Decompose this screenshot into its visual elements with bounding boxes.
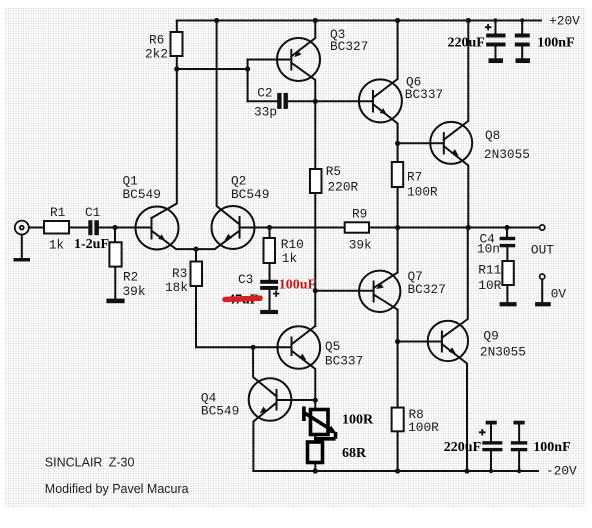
wire Q6 collector to +20V <box>373 21 398 98</box>
capacitor bottom 100nF leads <box>518 425 520 472</box>
capacitor C3 bottom lead <box>269 290 271 310</box>
svg-text:100R: 100R <box>342 412 374 427</box>
junction Q5 base node <box>251 345 256 350</box>
svg-text:18k: 18k <box>165 280 188 295</box>
svg-text:100uF: 100uF <box>279 278 316 293</box>
svg-text:100nF: 100nF <box>533 440 570 455</box>
capacitor bottom 220uF top bar <box>486 421 497 425</box>
svg-text:R5: R5 <box>326 164 341 179</box>
svg-text:220uF: 220uF <box>448 35 485 50</box>
svg-text:R11: R11 <box>478 263 501 278</box>
wire Q2 emitter <box>196 231 240 249</box>
svg-text:100nF: 100nF <box>537 35 574 50</box>
svg-text:BC549: BC549 <box>123 187 161 202</box>
transistor Q3 <box>277 38 320 81</box>
wire Q2 base <box>240 227 270 229</box>
transistor Q4 <box>249 378 292 421</box>
wire to OUT terminal <box>507 227 540 229</box>
junction Q3 collector node <box>313 99 318 104</box>
trimmer wiper return <box>314 432 336 439</box>
wire Q6 base <box>315 100 373 102</box>
trimmer wiper arrowhead <box>327 426 337 434</box>
junction Q4 base node <box>313 398 318 403</box>
junction Q3 base riser <box>245 66 250 71</box>
wire 0V terminal lead <box>541 279 543 302</box>
wire riser Q3 base / C2 left <box>247 60 249 102</box>
capacitor C1 plates <box>88 220 92 235</box>
wire Q4 base <box>277 399 316 401</box>
arrow Q3 emitter <box>294 50 301 57</box>
capacitor bottom 220uF plates <box>482 441 502 444</box>
resistor R11 body <box>502 261 513 285</box>
svg-text:R1: R1 <box>50 205 66 220</box>
wire Q8 base <box>398 142 444 144</box>
ground C3 <box>260 310 278 314</box>
capacitor top 100nF bottom bar <box>516 58 531 63</box>
capacitor top 220uF plates <box>486 34 505 38</box>
resistor R6 leads <box>176 21 178 70</box>
plus C3 <box>273 290 280 297</box>
resistor R3 top lead <box>195 249 197 261</box>
svg-text:39k: 39k <box>349 237 372 252</box>
wire feedback bus left <box>270 227 345 229</box>
transistor Q7 <box>359 271 400 312</box>
wire Q6 emitter <box>373 104 398 143</box>
svg-text:10n: 10n <box>477 241 500 256</box>
svg-text:2k2: 2k2 <box>145 46 168 61</box>
ground input <box>14 258 31 262</box>
resistor R8 leads <box>397 342 399 472</box>
trimmer wiper tick <box>302 407 306 422</box>
wire bus R9 to R7 node <box>369 227 398 229</box>
red strike through 47uF <box>225 298 260 299</box>
trimmer wiper diagonal <box>304 413 331 430</box>
wire +20V top rail <box>177 20 541 22</box>
svg-text:33p: 33p <box>254 105 277 120</box>
capacitor top 100nF plates <box>515 34 530 38</box>
resistor R9 body <box>345 222 369 232</box>
junction input node <box>112 225 117 230</box>
wire Q1 collector to R6 node <box>152 69 177 218</box>
trimmer leads <box>314 400 316 471</box>
wire Q5 base <box>253 346 291 348</box>
OUT terminal <box>540 225 545 230</box>
0V terminal <box>540 274 545 279</box>
junction rail 220uF <box>493 18 497 22</box>
resistor R11 bottom lead <box>506 285 508 302</box>
resistor R7 body <box>392 162 403 187</box>
capacitor bottom 100nF plates <box>511 441 528 444</box>
ground R2 <box>106 299 124 304</box>
resistor R2 body <box>109 242 121 266</box>
wire Q3 emitter to +20V <box>291 21 315 57</box>
svg-text:Q8: Q8 <box>485 128 500 143</box>
capacitor top 220uF leads <box>495 21 497 59</box>
transistor Q8 <box>430 122 472 164</box>
plus top 220uF <box>485 24 492 30</box>
wire input jack ground lead <box>21 235 23 258</box>
svg-text:C2: C2 <box>257 86 272 101</box>
svg-text:1k: 1k <box>49 237 65 252</box>
svg-text:39k: 39k <box>123 284 146 299</box>
junction rail Q9 <box>464 468 469 473</box>
svg-text:-20V: -20V <box>546 464 577 479</box>
wire R3 bottom to Q5 base node <box>196 286 253 347</box>
capacitor bottom 220uF leads <box>490 425 492 472</box>
arrow Q1 emitter <box>158 234 165 241</box>
junction rail 100nF <box>520 18 524 22</box>
svg-text:220uF: 220uF <box>444 440 481 455</box>
resistor R8 body <box>392 408 404 432</box>
svg-text:Modified by Pavel Macura: Modified by Pavel Macura <box>45 482 189 496</box>
svg-text:+20V: +20V <box>549 14 580 29</box>
wire node A to Q3 base riser <box>177 68 248 70</box>
wire bus to output centre <box>398 227 469 229</box>
svg-text:Q9: Q9 <box>483 329 498 344</box>
wire input jack to R1 <box>29 227 44 229</box>
junction Q7 collector Q9 base <box>395 339 400 344</box>
junction rail Q3 <box>313 18 318 23</box>
transistor Q5 <box>278 326 321 369</box>
wire -20V bottom rail <box>253 470 538 472</box>
transistor Q6 <box>359 79 402 122</box>
wire Q5 collector diagonal <box>292 326 316 344</box>
junction rail Q8 <box>466 18 471 23</box>
wire Q7 collector <box>374 295 398 342</box>
svg-text:0V: 0V <box>551 287 567 302</box>
svg-text:68R: 68R <box>342 446 367 461</box>
arrow Q4 emitter <box>260 407 267 414</box>
resistor R3 body <box>191 262 203 287</box>
wire C4 to R11 <box>506 247 508 261</box>
transistor Q9 <box>428 321 468 361</box>
wire Q3 base <box>248 59 292 61</box>
junction rail trimmer <box>313 468 318 473</box>
svg-text:C3: C3 <box>238 272 253 287</box>
wire node B to R5 <box>314 101 316 169</box>
junction Q7 base node <box>313 288 318 293</box>
svg-text:BC549: BC549 <box>201 404 239 419</box>
junction rail R8 <box>395 468 400 473</box>
wire Q9 collector to output node <box>442 228 468 338</box>
svg-text:2N3055: 2N3055 <box>480 344 526 359</box>
junction R6 bottom <box>174 66 179 71</box>
input jack J1 <box>15 221 29 235</box>
ground R11 <box>500 302 517 306</box>
svg-text:SINCLAIR Z-30: SINCLAIR Z-30 <box>45 456 135 470</box>
svg-text:R2: R2 <box>123 269 138 284</box>
svg-text:2N3055: 2N3055 <box>484 147 530 162</box>
junction rail Q2 <box>214 18 219 23</box>
svg-text:100R: 100R <box>407 185 438 200</box>
svg-text:C1: C1 <box>85 205 101 220</box>
capacitor C4 plates <box>500 237 516 240</box>
capacitor C4 top lead <box>506 228 508 237</box>
wire Q9 base <box>398 341 442 343</box>
junction output centre <box>466 225 471 230</box>
junction bus R7 <box>395 225 400 230</box>
capacitor bottom 100nF top bar <box>514 421 525 425</box>
svg-text:220R: 220R <box>328 179 359 194</box>
svg-text:10R: 10R <box>478 278 501 293</box>
resistor R10 body <box>264 238 276 263</box>
svg-text:OUT: OUT <box>531 243 554 258</box>
ground 0V <box>535 302 551 306</box>
arrow Q2 emitter <box>225 234 232 241</box>
wire C2 right lead <box>288 100 315 102</box>
resistor R5 body <box>310 169 322 193</box>
svg-text:R9: R9 <box>352 207 367 222</box>
plus bottom 220uF <box>479 429 486 436</box>
junction rail bottom 220uF <box>489 469 493 473</box>
arrow Q6 emitter <box>380 108 387 115</box>
svg-text:BC327: BC327 <box>408 282 446 297</box>
svg-text:Q5: Q5 <box>325 339 340 354</box>
junction emitters Q1 Q2 <box>193 247 198 252</box>
svg-text:BC337: BC337 <box>405 87 443 102</box>
junction rail bottom 100nF <box>517 469 521 473</box>
svg-text:1k: 1k <box>282 251 298 266</box>
junction Q6 emitter Q8 base <box>395 141 400 146</box>
junction rail Q6 <box>395 18 400 23</box>
junction C4 <box>504 225 509 230</box>
svg-text:BC337: BC337 <box>325 354 363 369</box>
trimmer 68R body <box>308 442 323 463</box>
wire Q8 emitter to output node <box>444 146 469 227</box>
svg-text:R10: R10 <box>281 237 304 252</box>
wire Q4 emitter to -20V rail <box>253 403 276 471</box>
wire Q9 emitter to -20V rail <box>442 344 467 471</box>
wire Q7 base <box>315 290 373 292</box>
wire Q7 emitter to output bus <box>374 228 398 289</box>
svg-text:100R: 100R <box>408 420 439 435</box>
resistor R10 leads <box>269 228 271 280</box>
wire C2 left lead <box>248 100 278 102</box>
resistor R1 body <box>44 221 69 234</box>
resistor R7 leads <box>397 143 399 227</box>
trimmer 100R body <box>311 410 329 435</box>
wire Q1 emitter <box>152 231 197 249</box>
transistor Q2 <box>212 206 255 249</box>
transistor Q1 <box>136 207 179 250</box>
svg-text:BC549: BC549 <box>231 187 269 202</box>
wire Q5 emitter <box>292 351 316 401</box>
svg-text:BC327: BC327 <box>330 39 368 54</box>
wire R5 to Q5 collector / Q7 base node <box>314 193 316 326</box>
arrow Q9 emitter <box>449 347 456 354</box>
arrow Q7 emitter <box>376 283 384 289</box>
capacitor top 220uF bottom bar <box>489 58 504 63</box>
wire C1 to node <box>99 227 115 229</box>
arrow Q5 emitter <box>299 354 306 361</box>
svg-text:R3: R3 <box>172 266 187 281</box>
wire Q4 collector <box>253 347 276 396</box>
wire R1 to C1 <box>69 227 88 229</box>
wire output node to C4 node <box>468 227 507 229</box>
wire Q1 base <box>115 227 152 229</box>
resistor R2 leads <box>114 228 116 299</box>
capacitor top 100nF leads <box>521 21 523 59</box>
capacitor C2 plates <box>277 93 281 109</box>
svg-text:R7: R7 <box>407 170 422 185</box>
resistor R6 body <box>171 32 183 56</box>
capacitor C3 plates <box>260 280 278 284</box>
wire Q3 collector <box>291 63 315 102</box>
wire Q8 collector to +20V <box>444 21 469 140</box>
svg-text:1-2uF: 1-2uF <box>74 237 109 252</box>
wire Q2 collector to +20V <box>217 21 240 225</box>
arrow Q8 emitter <box>451 149 458 156</box>
junction Q2 base node <box>267 225 272 230</box>
svg-text:R6: R6 <box>149 33 164 48</box>
